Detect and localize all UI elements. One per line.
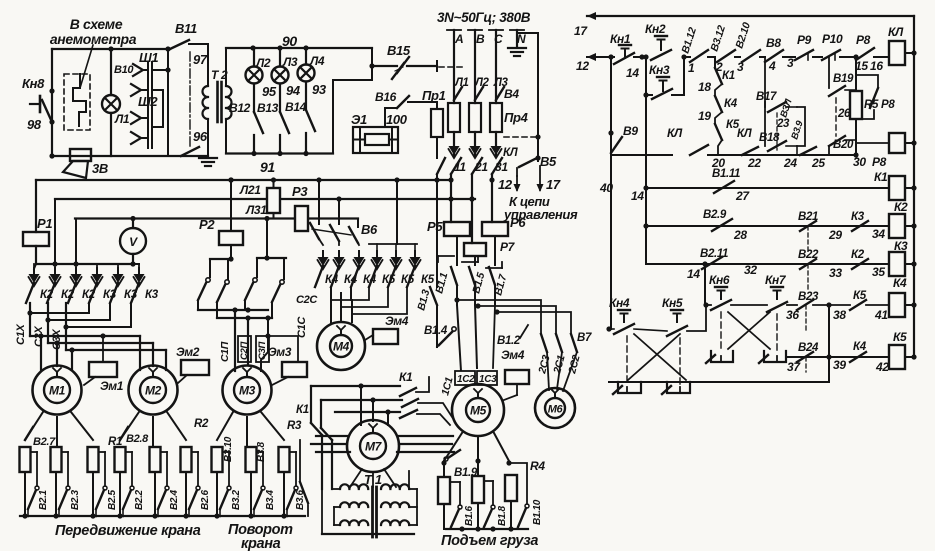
bus 1	[36, 179, 451, 181]
svg-text:Р8: Р8	[856, 33, 871, 47]
svg-text:В24: В24	[798, 342, 819, 354]
relay contact step inside box	[73, 74, 86, 126]
svg-text:97: 97	[193, 52, 208, 67]
svg-text:Пр4: Пр4	[504, 110, 529, 125]
svg-text:К1: К1	[874, 170, 888, 184]
svg-text:крана: крана	[241, 536, 281, 551]
cross mech link Kn4 Kn5	[634, 334, 686, 380]
svg-text:Кн5: Кн5	[662, 296, 683, 310]
svg-text:4: 4	[768, 59, 776, 73]
motor M2	[129, 366, 178, 415]
bottom bus hoist	[446, 528, 528, 530]
rung B24	[786, 356, 889, 358]
svg-text:41: 41	[874, 308, 888, 322]
fuse C	[490, 103, 502, 132]
connector chevron L1 side	[131, 112, 141, 124]
verticals down to T1	[310, 386, 312, 423]
svg-text:14: 14	[687, 267, 700, 281]
svg-text:1: 1	[688, 61, 695, 75]
resistor M5 a	[438, 477, 450, 504]
switch B14	[306, 110, 315, 131]
svg-text:Кн3: Кн3	[649, 63, 670, 77]
svg-text:В6: В6	[361, 222, 378, 237]
dashed link to phase A	[439, 66, 466, 68]
switch B12	[254, 112, 263, 133]
svg-text:В15: В15	[387, 43, 411, 58]
svg-text:91: 91	[260, 159, 275, 175]
svg-text:С1Х: С1Х	[15, 324, 27, 345]
svg-text:3: 3	[787, 56, 794, 70]
blades under arrows K4 K5	[315, 266, 323, 287]
M7 bottom leads	[350, 469, 362, 487]
svg-text:32: 32	[744, 263, 757, 277]
svg-text:В2.9: В2.9	[703, 209, 727, 221]
svg-text:35: 35	[872, 265, 885, 279]
wire lamp L4 stem	[305, 48, 307, 65]
svg-text:В1.8: В1.8	[497, 505, 508, 526]
svg-text:94: 94	[286, 83, 301, 98]
svg-text:100: 100	[386, 112, 408, 127]
rung B2.11	[645, 226, 647, 264]
svg-text:11: 11	[454, 160, 466, 174]
svg-text:В3.9: В3.9	[789, 119, 806, 141]
svg-text:В2.11: В2.11	[700, 248, 728, 260]
bell 3V	[70, 149, 91, 161]
switch B11 lower	[181, 147, 199, 156]
svg-text:29: 29	[828, 228, 842, 242]
three horizontals to M7	[311, 385, 400, 387]
svg-text:КЛ: КЛ	[888, 25, 904, 39]
svg-text:В3.2: В3.2	[231, 489, 242, 510]
voltmeter V	[120, 228, 146, 254]
disconnect arrow A	[449, 146, 460, 155]
svg-text:В: В	[476, 32, 485, 46]
disconnect arrow C	[491, 146, 502, 155]
svg-text:14: 14	[631, 189, 644, 203]
svg-text:В17: В17	[756, 91, 777, 103]
NC contact Kn6 bottom	[711, 351, 733, 362]
wire P1 to arrow 1	[34, 264, 36, 269]
wire Kn5 to Kn6 column	[687, 305, 706, 331]
svg-text:С1С: С1С	[296, 316, 308, 338]
svg-text:М6: М6	[548, 404, 564, 416]
connector strip Sh double line	[147, 62, 149, 148]
svg-text:Л3: Л3	[282, 55, 298, 69]
wire phase 3 down	[491, 174, 493, 222]
rung B2.9	[645, 188, 647, 226]
svg-text:В1.12: В1.12	[679, 26, 699, 55]
svg-text:23: 23	[776, 118, 790, 130]
svg-text:В5: В5	[540, 154, 557, 169]
svg-text:В9: В9	[623, 124, 638, 138]
vertical 38 39 node	[828, 305, 830, 382]
svg-text:38: 38	[833, 308, 846, 322]
svg-text:В1.1: В1.1	[433, 271, 450, 295]
svg-text:К3: К3	[145, 289, 159, 301]
svg-text:С2С: С2С	[296, 294, 318, 306]
svg-text:В2.2: В2.2	[134, 489, 145, 510]
svg-text:2С3: 2С3	[536, 354, 553, 376]
svg-text:Л1: Л1	[114, 112, 130, 126]
row 12 rail	[587, 56, 614, 58]
svg-text:Р8: Р8	[881, 99, 895, 111]
reverse jog wires	[30, 303, 89, 313]
relay P3 contacts pair	[257, 257, 286, 259]
svg-text:В2.3: В2.3	[70, 489, 81, 510]
motor M3 rotor leads	[217, 412, 233, 440]
bottom bus travel	[20, 515, 305, 517]
svg-text:93: 93	[312, 82, 327, 97]
svg-text:12: 12	[498, 177, 513, 192]
svg-text:М1: М1	[49, 384, 66, 398]
svg-text:В14: В14	[285, 100, 307, 114]
svg-text:16: 16	[870, 59, 883, 73]
svg-text:Передвижение крана: Передвижение крана	[55, 523, 201, 539]
svg-text:Р6: Р6	[510, 215, 526, 230]
transformer T1 core	[371, 487, 374, 537]
node Kn2 Kn3 split	[639, 54, 644, 59]
T1 connection wires	[332, 488, 340, 490]
svg-text:19: 19	[698, 109, 711, 123]
svg-text:М3: М3	[239, 384, 256, 398]
T1 right windings	[381, 484, 409, 489]
svg-text:3: 3	[737, 60, 744, 74]
svg-text:R3: R3	[287, 420, 302, 432]
svg-text:Л21: Л21	[239, 183, 261, 197]
M5 bottom leads	[444, 433, 462, 461]
svg-text:90: 90	[282, 33, 297, 49]
svg-text:Р8: Р8	[872, 155, 887, 169]
svg-text:Кн4: Кн4	[609, 296, 630, 310]
wire lamp L2 stem	[253, 48, 255, 67]
svg-text:КЛ: КЛ	[667, 126, 683, 140]
svg-text:В3.4: В3.4	[265, 489, 276, 510]
svg-text:В8: В8	[766, 36, 781, 50]
wire anemometer loop left vertical	[51, 49, 53, 156]
NC contact Kn4 bottom	[618, 382, 641, 393]
relay P3 coil	[267, 188, 280, 213]
svg-text:3В: 3В	[92, 161, 108, 176]
svg-text:12: 12	[576, 59, 589, 73]
wire below fuse C	[495, 132, 497, 157]
lamp L1	[102, 95, 120, 113]
ground T2	[207, 150, 209, 157]
svg-text:37: 37	[787, 360, 801, 374]
svg-text:Р7: Р7	[500, 240, 516, 254]
svg-text:Л2: Л2	[255, 56, 271, 70]
wire lamp L1 vertical	[110, 49, 112, 95]
svg-text:40: 40	[599, 181, 613, 195]
svg-text:В2.10: В2.10	[733, 21, 753, 50]
svg-text:КЛ: КЛ	[737, 128, 753, 140]
svg-text:Р2: Р2	[199, 217, 215, 232]
svg-text:Эм4: Эм4	[385, 314, 409, 328]
svg-text:К1: К1	[296, 404, 309, 416]
bottom line T1	[322, 533, 414, 535]
NC contact Kn7 bottom	[764, 351, 786, 362]
motor M1	[33, 366, 82, 415]
right rail	[913, 16, 915, 357]
wires into M5	[457, 305, 461, 371]
boxed labels 1S2 1S3	[455, 371, 475, 385]
tick after B15	[436, 61, 438, 71]
feed row 2 to M3	[217, 317, 272, 319]
lamp L4	[298, 65, 315, 82]
svg-text:В1.11: В1.11	[712, 168, 740, 180]
wire phase 2 down	[471, 174, 473, 243]
svg-text:Э1: Э1	[351, 112, 367, 127]
svg-text:К1: К1	[399, 370, 413, 384]
svg-text:К4: К4	[724, 98, 738, 110]
svg-text:25: 25	[811, 156, 825, 170]
wire anemometer right vertical	[167, 49, 169, 156]
svg-text:Пр1: Пр1	[422, 88, 446, 103]
series box on bus3	[295, 206, 308, 231]
svg-text:Кн2: Кн2	[645, 22, 666, 36]
svg-text:Р9: Р9	[797, 33, 812, 47]
motor M4	[317, 322, 365, 370]
wire taps to M6 feed	[454, 297, 459, 302]
arrow 12 down	[516, 176, 518, 190]
phase spread M1 M2 line2	[48, 342, 153, 344]
wires into M6	[547, 352, 549, 390]
svg-text:В10: В10	[114, 64, 134, 76]
svg-text:Р10: Р10	[822, 32, 843, 46]
svg-text:В13: В13	[257, 101, 279, 115]
motor M5	[452, 384, 504, 436]
svg-text:Эм4: Эм4	[501, 348, 525, 362]
svg-text:Кн6: Кн6	[709, 273, 730, 287]
svg-text:М4: М4	[333, 340, 350, 354]
svg-text:18: 18	[698, 80, 711, 94]
svg-text:ВЗЛ: ВЗЛ	[778, 97, 794, 118]
svg-text:В2.4: В2.4	[169, 489, 180, 510]
motor M1 rotor leads	[25, 412, 43, 440]
bus 3	[75, 217, 295, 219]
svg-text:В схеме: В схеме	[70, 16, 123, 32]
dashed link fuses	[504, 136, 536, 138]
Em3 tap	[268, 336, 298, 362]
svg-text:V: V	[129, 235, 138, 249]
svg-text:A: A	[454, 32, 463, 46]
svg-text:В2.1: В2.1	[38, 489, 49, 510]
contacts B6 triple	[318, 180, 320, 224]
svg-text:R4: R4	[530, 459, 545, 473]
svg-text:В1.10: В1.10	[532, 499, 543, 525]
svg-text:95: 95	[262, 84, 277, 99]
svg-text:33: 33	[829, 266, 842, 280]
svg-text:Ш1: Ш1	[139, 50, 158, 65]
lamp L2	[246, 67, 263, 84]
svg-text:14: 14	[626, 66, 639, 80]
dashed link B19 B20	[835, 98, 837, 136]
wire phase 1 down	[450, 174, 452, 222]
pointer line from text to box	[80, 45, 93, 88]
left K1 blades under rows	[311, 423, 322, 435]
svg-text:В1.5: В1.5	[470, 271, 487, 295]
resistor M5 c	[505, 475, 517, 501]
fuse Pr control	[431, 109, 443, 137]
wire below fuse B	[474, 132, 476, 157]
phase spread M1 M2 line1	[30, 335, 140, 337]
svg-text:М2: М2	[145, 384, 162, 398]
svg-text:1С1: 1С1	[439, 376, 455, 397]
T1 left windings	[340, 484, 368, 489]
K1 blade outputs to M5 rotor	[416, 377, 429, 392]
svg-text:Эм2: Эм2	[176, 345, 200, 359]
brake Em1	[89, 362, 117, 377]
svg-text:Л4: Л4	[309, 54, 325, 68]
ground N	[508, 47, 526, 49]
wire N to right column	[517, 33, 538, 161]
blades under arrows K2 K3	[26, 283, 34, 303]
arrows K4 K5 row	[319, 239, 323, 245]
rotor resistors row with bypass contacts	[20, 447, 31, 472]
svg-text:34: 34	[872, 227, 885, 241]
wire rung to Kn6	[702, 261, 707, 266]
motor M7	[347, 420, 399, 472]
bus 3 right part	[308, 217, 358, 219]
svg-text:М5: М5	[470, 404, 487, 418]
svg-text:К3: К3	[851, 211, 865, 223]
wire below fuse A	[453, 132, 455, 157]
svg-text:24: 24	[783, 156, 797, 170]
dash-dot link B11	[189, 52, 191, 146]
wire Sh2 bracket	[152, 90, 163, 127]
contact KL 11	[451, 158, 461, 174]
svg-text:42: 42	[875, 360, 889, 374]
R5 P8 column	[855, 57, 857, 91]
switch B13	[280, 112, 289, 133]
svg-text:В7: В7	[577, 332, 592, 344]
wire Sh1 to right rail	[152, 69, 168, 71]
bus 91 bottom	[226, 152, 333, 154]
connector chevron 2	[131, 84, 141, 96]
fuse A	[448, 103, 460, 132]
contact KL 21	[472, 158, 482, 174]
contactor arrows K2 K3 row	[29, 274, 40, 283]
svg-text:26: 26	[837, 108, 851, 120]
svg-text:Кн8: Кн8	[22, 76, 45, 91]
svg-text:В1.3: В1.3	[415, 288, 432, 312]
svg-text:К4: К4	[853, 341, 867, 353]
svg-text:В1.4: В1.4	[424, 325, 448, 337]
wire lamp L3 stem	[279, 48, 281, 67]
svg-text:В12: В12	[229, 101, 251, 115]
svg-text:17: 17	[574, 24, 588, 38]
M7 terminal stubs	[360, 386, 362, 425]
cross mech link Kn6 Kn7	[720, 312, 722, 351]
svg-text:М7: М7	[365, 440, 383, 454]
svg-text:К2: К2	[851, 249, 865, 261]
motor M2 rotor leads	[120, 412, 139, 440]
motor M3	[223, 366, 272, 415]
svg-text:В11: В11	[175, 21, 197, 36]
svg-text:К2: К2	[894, 200, 908, 214]
svg-text:К5: К5	[893, 330, 907, 344]
svg-text:В2.5: В2.5	[107, 489, 118, 510]
svg-text:39: 39	[833, 358, 846, 372]
svg-text:В4: В4	[504, 87, 519, 101]
svg-text:21: 21	[474, 160, 488, 174]
arrow 17 down	[539, 166, 541, 190]
svg-text:К1: К1	[722, 70, 735, 82]
relay P2 contacts pair	[210, 258, 231, 260]
NC contact Kn5 bottom	[667, 382, 690, 393]
relay bottom brackets	[438, 255, 454, 257]
dashed relay box	[64, 74, 90, 130]
wire lamp panel right loop	[371, 48, 373, 66]
svg-text:В19: В19	[833, 73, 854, 85]
svg-text:N: N	[517, 32, 526, 46]
phase link wires to motors M1 M2	[29, 303, 31, 336]
svg-text:К5: К5	[421, 274, 435, 286]
svg-text:Р3: Р3	[292, 184, 308, 199]
svg-text:Р5: Р5	[427, 219, 443, 234]
svg-text:Ш2: Ш2	[138, 94, 158, 109]
svg-text:В3.12: В3.12	[708, 24, 728, 53]
svg-text:31: 31	[495, 160, 508, 174]
M5 rotor horizontals	[316, 435, 347, 437]
top rail	[587, 15, 914, 17]
svg-text:КЛ: КЛ	[503, 147, 519, 159]
svg-text:17: 17	[546, 177, 561, 192]
connector chevron bottom	[131, 132, 141, 144]
motor M6	[535, 388, 575, 428]
svg-text:В1.9: В1.9	[454, 467, 478, 479]
svg-text:Р1: Р1	[37, 216, 52, 231]
svg-text:В23: В23	[798, 291, 819, 303]
switch B3.6 column	[299, 440, 301, 482]
bottom bus kn	[609, 381, 829, 383]
wire anemometer bottom	[52, 155, 208, 157]
svg-text:36: 36	[786, 308, 799, 322]
svg-text:В1.6: В1.6	[464, 505, 475, 526]
svg-text:Эм3: Эм3	[268, 345, 292, 359]
coil P8	[889, 133, 905, 153]
left ladder vertical 40	[610, 57, 612, 329]
svg-text:27: 27	[735, 189, 750, 203]
resistor M5 b	[472, 476, 484, 503]
svg-text:К4: К4	[893, 276, 907, 290]
horizontal link arrows	[36, 263, 133, 265]
wires K4 K5 to M4	[330, 287, 332, 323]
wire anemometer top	[52, 48, 170, 50]
svg-text:22: 22	[747, 156, 761, 170]
svg-text:28: 28	[733, 228, 747, 242]
svg-text:98: 98	[27, 117, 42, 132]
lamp L3	[272, 67, 289, 84]
svg-text:С1П: С1П	[219, 341, 231, 362]
row 20 22 24 25	[611, 154, 672, 156]
svg-text:Эм1: Эм1	[100, 379, 124, 393]
svg-text:R2: R2	[194, 418, 209, 430]
svg-text:В1.2: В1.2	[497, 335, 521, 347]
svg-text:3N~50Гц; 380В: 3N~50Гц; 380В	[437, 10, 531, 25]
svg-text:В16: В16	[375, 90, 397, 104]
phase spread M1 M2 line3	[66, 349, 166, 351]
wires to M3	[234, 310, 236, 371]
bus 2	[55, 198, 475, 200]
svg-text:Подъем груза: Подъем груза	[441, 533, 538, 549]
svg-text:В2.6: В2.6	[200, 489, 211, 510]
svg-text:Л31: Л31	[245, 203, 267, 217]
feed row 1 to M3	[198, 309, 268, 311]
bus 90 top	[226, 47, 372, 49]
svg-text:В2.8: В2.8	[126, 433, 149, 445]
contact KL 31	[492, 158, 502, 174]
fuse B	[469, 103, 481, 132]
